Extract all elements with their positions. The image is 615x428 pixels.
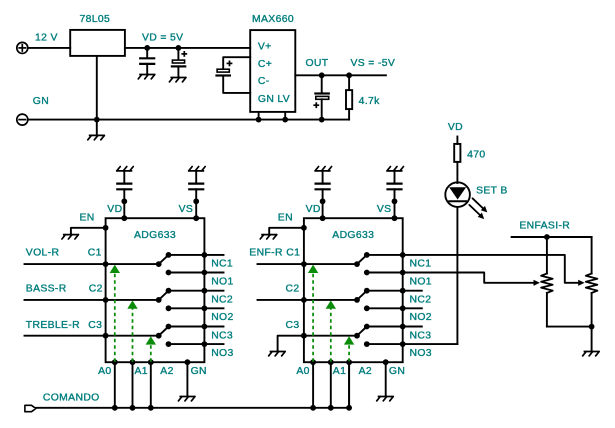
decoupling capacitor at VD (IC4) — [316, 171, 330, 189]
decoupling capacitor at VD (IC3) — [117, 171, 131, 189]
junction A2 at box (IC3) — [148, 359, 154, 365]
svg-text:GN: GN — [191, 366, 207, 377]
junction C3 pin (IC3) — [103, 333, 109, 339]
junction pot bottoms — [589, 324, 595, 330]
svg-text:C3: C3 — [88, 320, 102, 331]
junction NO1 at box edge (IC4) — [400, 270, 406, 276]
svg-text:NO1: NO1 — [410, 276, 432, 287]
wire NO3 contact to box edge (IC3) — [169, 343, 205, 345]
LED D1 circle — [445, 182, 470, 207]
junction A2 at bus (IC3) — [148, 405, 154, 411]
wire VOL-R net to C1 (IC3) — [25, 263, 106, 265]
svg-text:4.7k: 4.7k — [359, 96, 380, 107]
switch S2 NO contact (IC3) — [166, 305, 172, 311]
junction VD pin top (IC4) — [320, 198, 326, 204]
wire VS pin of IC4 — [394, 189, 396, 218]
wire NC2 contact to box edge (IC4) — [367, 290, 403, 292]
switch S3 common wire inside IC4 — [304, 335, 357, 337]
svg-text:C+: C+ — [258, 59, 272, 70]
junction A1 at box (IC3) — [130, 359, 136, 365]
terminal X1 + (12V input) — [17, 42, 28, 53]
switch S1 blade to NC (IC4) — [357, 255, 367, 264]
stub wire right of IC3 y=344.1 — [204, 343, 223, 345]
svg-text:EN: EN — [80, 212, 95, 223]
svg-text:VD: VD — [448, 122, 463, 133]
ground above VD cap (IC3) — [116, 167, 133, 171]
junction A1 at box (IC4) — [328, 359, 334, 365]
svg-text:78L05: 78L05 — [80, 14, 111, 25]
junction NC3 at box edge (IC4) — [400, 324, 406, 330]
wire EN pin of IC4 to ground — [269, 228, 304, 235]
junction NO3 at box edge (IC3) — [202, 341, 208, 347]
switch S1 NO contact (IC3) — [166, 270, 172, 276]
polarity + of C4 — [313, 102, 319, 108]
stub wire NO2 (IC4) — [403, 307, 422, 309]
switch S3 common wire inside IC3 — [106, 335, 159, 337]
svg-text:NC2: NC2 — [410, 295, 432, 306]
svg-text:NC2: NC2 — [211, 295, 233, 306]
junction A2 at bus (IC4) — [346, 405, 352, 411]
switch S3 NC contact (IC3) — [166, 324, 172, 330]
terminal X2 - (GN) — [17, 114, 28, 125]
svg-text:C1: C1 — [88, 247, 102, 258]
svg-text:ADG633: ADG633 — [134, 230, 176, 241]
control arrow (green dashed) IC4 x=349 — [344, 336, 354, 362]
junction OUT / R2 — [346, 72, 352, 78]
svg-text:VD: VD — [306, 204, 321, 215]
junction VD pin top (IC3) — [121, 198, 127, 204]
junction VD pin at box (IC4) — [320, 215, 326, 221]
wire NO1 (IC4) to left pot wiper — [403, 273, 533, 283]
switch S1 pivot (IC3) — [156, 261, 162, 267]
junction VS pin at box (IC3) — [193, 215, 199, 221]
junction VD pin at box (IC3) — [121, 215, 127, 221]
wire BASS-R net to C2 (IC3) — [25, 299, 106, 301]
junction VS pin at box (IC4) — [392, 215, 398, 221]
svg-text:C2: C2 — [89, 284, 103, 295]
stub wire right of IC3 y=326.5 — [204, 326, 223, 328]
wire A2 pin of IC4 to COMANDO bus — [348, 362, 350, 408]
junction C2 pin (IC3) — [103, 297, 109, 303]
ground at EN (IC3) — [62, 235, 79, 239]
svg-text:NO2: NO2 — [410, 312, 432, 323]
ground below GN bus — [88, 135, 105, 139]
switch S1 pivot (IC4) — [354, 261, 360, 267]
junction A0 at bus (IC4) — [310, 405, 316, 411]
switch S2 NC contact (IC3) — [166, 288, 172, 294]
svg-text:NO3: NO3 — [410, 348, 432, 359]
svg-text:A0: A0 — [98, 366, 111, 377]
junction A0 at box (IC3) — [112, 359, 118, 365]
stub wire NC3 (IC4) — [403, 326, 422, 328]
svg-text:A2: A2 — [359, 366, 372, 377]
wire A0 pin of IC4 to COMANDO bus — [312, 362, 314, 408]
wire GN bus — [28, 119, 349, 121]
junction NO2 at box edge (IC3) — [202, 305, 208, 311]
svg-text:GN: GN — [33, 96, 49, 107]
wire ENF-R net to C1 (IC4) — [258, 263, 304, 265]
junction C1 pin (IC4) — [301, 261, 307, 267]
svg-text:SET B: SET B — [476, 185, 508, 196]
connector tag COMANDO — [25, 405, 36, 411]
stub wire right of IC3 y=272.5 — [204, 272, 223, 274]
wire NO3 (IC4) to LED cathode line — [403, 343, 458, 345]
wire NO1 contact to box edge (IC3) — [169, 272, 205, 274]
switch S3 NO contact (IC4) — [364, 341, 370, 347]
junction A0 at box (IC4) — [310, 359, 316, 365]
svg-text:TREBLE-R: TREBLE-R — [26, 320, 80, 331]
junction A0 at bus (IC3) — [112, 405, 118, 411]
ground below P2 — [583, 352, 600, 356]
junction GN pin (IC3) — [185, 359, 191, 365]
svg-text:A1: A1 — [135, 366, 148, 377]
junction NO3 at box edge (IC4) — [400, 341, 406, 347]
wire MAX660 LV pin — [284, 112, 286, 120]
svg-text:NO1: NO1 — [211, 276, 233, 287]
svg-text:GN LV: GN LV — [258, 94, 290, 105]
wire ENFASI-R net — [512, 236, 592, 238]
ground at GN pin (IC4) — [377, 397, 394, 401]
IC IC3 ADG633 box — [106, 218, 205, 362]
capacitor C4 (output, electrolytic, + down) — [315, 75, 328, 119]
junction NO1 at box edge (IC3) — [202, 270, 208, 276]
wire pot bottoms — [547, 326, 592, 328]
wire GN pin of IC4 — [385, 362, 387, 396]
svg-text:VS: VS — [377, 204, 392, 215]
svg-text:470: 470 — [467, 149, 485, 160]
junction NC2 at box edge (IC3) — [202, 288, 208, 294]
svg-text:OUT: OUT — [306, 58, 329, 69]
junction VD rail / C1 — [144, 45, 150, 51]
wire A1 pin of IC3 to COMANDO bus — [132, 362, 134, 408]
ground above VS cap (IC3) — [188, 167, 205, 171]
svg-text:12 V: 12 V — [35, 32, 58, 43]
svg-text:ENF-R: ENF-R — [249, 247, 283, 258]
wire NC3 contact to box edge (IC3) — [169, 326, 205, 328]
wire GN pin of IC3 — [186, 362, 188, 396]
junction GN bus / C4 — [319, 117, 325, 123]
switch S2 blade to NC (IC3) — [159, 291, 169, 300]
switch S3 pivot (IC4) — [354, 333, 360, 339]
junction C2 pin (IC4) — [301, 297, 307, 303]
wire NC1 contact to box edge (IC3) — [169, 254, 205, 256]
switch S1 NO contact (IC4) — [364, 270, 370, 276]
switch S3 NC contact (IC4) — [364, 324, 370, 330]
svg-text:A1: A1 — [333, 366, 346, 377]
wire TREBLE-R net to C3 (IC3) — [25, 335, 106, 337]
switch S1 common wire inside IC3 — [106, 263, 159, 265]
junction NO2 at box edge (IC4) — [400, 305, 406, 311]
ground above VD cap (IC4) — [315, 167, 332, 171]
wire A2 pin of IC3 to COMANDO bus — [150, 362, 152, 408]
stub wire NC2 (IC4) — [403, 290, 422, 292]
control arrow (green dashed) IC4 x=313 — [308, 265, 318, 362]
wire EN pin of IC3 to ground — [71, 228, 106, 235]
IC2 MAX660 box — [250, 30, 295, 112]
polarity + of C3 — [227, 61, 233, 67]
switch S1 blade to NC (IC3) — [159, 255, 169, 264]
junction VD rail / C2 — [176, 45, 182, 51]
junction EN pin (IC4) — [301, 225, 307, 231]
wire NC3 contact to box edge (IC4) — [367, 326, 403, 328]
LED light arrow 2 — [469, 205, 484, 219]
wire VD to R1 — [456, 137, 458, 144]
junction C3 pin (IC4) — [301, 333, 307, 339]
control arrow (green dashed) IC3 x=115 — [110, 265, 120, 362]
wire NC1 (IC4) to right pot wiper — [403, 255, 578, 283]
junction NC1 at box edge (IC3) — [202, 252, 208, 258]
svg-text:A2: A2 — [160, 366, 173, 377]
switch S1 common wire inside IC4 — [304, 263, 357, 265]
wire 78L05 ground pin — [96, 56, 98, 135]
wire LED cathode down to NO3 (IC4) — [456, 207, 458, 344]
svg-text:VS = -5V: VS = -5V — [351, 58, 396, 69]
svg-text:MAX660: MAX660 — [252, 14, 294, 25]
control arrow (green dashed) IC3 x=132 — [127, 300, 137, 361]
wire NC1 contact to box edge (IC4) — [367, 254, 403, 256]
svg-text:VD = 5V: VD = 5V — [142, 32, 183, 43]
wire R1 to LED anode — [456, 162, 458, 183]
svg-text:VOL-R: VOL-R — [26, 247, 60, 258]
wire MAX660 GN pin — [258, 112, 260, 120]
potentiometer P1 (left) — [541, 237, 553, 327]
svg-text:VD: VD — [107, 204, 122, 215]
junction NC1 at box edge (IC4) — [400, 252, 406, 258]
junction A2 at box (IC4) — [346, 359, 352, 365]
switch S2 NO contact (IC4) — [364, 305, 370, 311]
junction ENFASI-R / left pot — [544, 234, 550, 240]
junction A1 at bus (IC3) — [130, 405, 136, 411]
LED light arrow 1 — [473, 198, 488, 212]
junction VS pin top (IC4) — [392, 198, 398, 204]
svg-text:C3: C3 — [286, 320, 300, 331]
ground at EN (IC4) — [260, 235, 277, 239]
ground below C1 — [138, 75, 155, 79]
svg-text:ADG633: ADG633 — [332, 230, 374, 241]
wire NO2 contact to box edge (IC4) — [367, 307, 403, 309]
stub wire right of IC3 y=308.3 — [204, 307, 223, 309]
wire VS pin of IC3 — [195, 189, 197, 218]
wire NO2 contact to box edge (IC3) — [169, 307, 205, 309]
switch S3 blade to NC (IC4) — [357, 327, 367, 336]
wiper arrowhead left pot — [534, 280, 540, 286]
svg-text:GN: GN — [389, 366, 405, 377]
wire COMANDO bus — [36, 362, 349, 408]
resistor R1 470 — [454, 144, 460, 162]
svg-text:VS: VS — [179, 204, 194, 215]
svg-text:NC1: NC1 — [410, 259, 432, 270]
switch S2 common wire inside IC3 — [106, 299, 159, 301]
stub wire right of IC3 y=254.9 — [204, 254, 223, 256]
junction NC3 at box edge (IC3) — [202, 324, 208, 330]
junction C1 pin (IC3) — [103, 261, 109, 267]
svg-text:ENFASI-R: ENFASI-R — [519, 221, 570, 232]
svg-text:COMANDO: COMANDO — [43, 393, 100, 404]
wire NO3 contact to box edge (IC4) — [367, 343, 403, 345]
junction VS pin top (IC3) — [193, 198, 199, 204]
wire flying capacitor to C- pin — [223, 76, 250, 93]
svg-text:C1: C1 — [286, 247, 300, 258]
svg-text:V+: V+ — [258, 41, 272, 52]
ground above VS cap (IC4) — [387, 167, 404, 171]
decoupling capacitor at VS (IC3) — [189, 171, 203, 189]
ground at GN pin (IC3) — [178, 397, 195, 401]
junction GN pin (IC4) — [383, 359, 389, 365]
ground at C3 (IC4) — [269, 352, 286, 356]
control arrow (green dashed) IC4 x=331 — [326, 300, 336, 361]
resistor R2 4.7k — [346, 75, 352, 119]
polarity + of C2 — [181, 51, 187, 57]
junction GN bus / 78L05 — [94, 117, 100, 123]
wire NO1 contact to box edge (IC4) — [367, 272, 403, 274]
svg-text:NC3: NC3 — [211, 330, 233, 341]
switch S2 pivot (IC3) — [156, 297, 162, 303]
junction GN bus / MAX660 LV — [282, 117, 288, 123]
switch S2 blade to NC (IC4) — [357, 291, 367, 300]
LED D1 triangle — [449, 187, 466, 199]
svg-text:C2: C2 — [286, 284, 300, 295]
junction A1 at bus (IC4) — [328, 405, 334, 411]
svg-text:NO3: NO3 — [211, 348, 233, 359]
switch S3 NO contact (IC3) — [166, 341, 172, 347]
wire C2 stub (IC4) — [258, 299, 304, 301]
control arrow (green dashed) IC3 x=151 — [146, 336, 156, 362]
potentiometer P2 (right) — [586, 237, 598, 351]
svg-text:EN: EN — [278, 212, 293, 223]
regulator IC1 78L05 — [70, 30, 125, 56]
wire NC2 contact to box edge (IC3) — [169, 290, 205, 292]
wire C+ pin to flying capacitor — [223, 57, 250, 69]
switch S2 pivot (IC4) — [354, 297, 360, 303]
junction NC2 at box edge (IC4) — [400, 288, 406, 294]
svg-text:NO2: NO2 — [211, 312, 233, 323]
wire C3 of IC4 to ground — [278, 336, 304, 352]
IC IC4 ADG633 box — [304, 218, 403, 362]
junction EN pin (IC3) — [103, 225, 109, 231]
decoupling capacitor at VS (IC4) — [388, 171, 402, 189]
capacitor C1 (ceramic to ground) — [140, 48, 154, 74]
wire A1 pin of IC4 to COMANDO bus — [330, 362, 332, 408]
switch S3 blade to NC (IC3) — [159, 327, 169, 336]
wiper arrowhead right pot — [578, 280, 584, 286]
wire + terminal to 78L05 — [28, 47, 70, 49]
junction GN bus / MAX660 GN — [256, 117, 262, 123]
junction OUT / C4 — [319, 72, 325, 78]
switch S1 NC contact (IC4) — [364, 252, 370, 258]
capacitor C3 (flying, electrolytic) — [217, 69, 230, 75]
wire VD pin of IC3 — [123, 189, 125, 218]
svg-text:A0: A0 — [296, 366, 309, 377]
ground below C2 — [169, 78, 186, 82]
wire OUT to VS = -5V net — [295, 74, 386, 76]
svg-text:BASS-R: BASS-R — [26, 284, 67, 295]
switch S3 pivot (IC3) — [156, 333, 162, 339]
capacitor C2 (electrolytic to ground) — [172, 48, 185, 77]
svg-text:C-: C- — [258, 76, 270, 87]
wire VD rail 78L05 to MAX660 V+ — [125, 47, 250, 49]
svg-text:NC1: NC1 — [211, 259, 233, 270]
svg-text:NC3: NC3 — [410, 330, 432, 341]
switch S2 common wire inside IC4 — [304, 299, 357, 301]
switch S2 NC contact (IC4) — [364, 288, 370, 294]
switch S1 NC contact (IC3) — [166, 252, 172, 258]
wire A0 pin of IC3 to COMANDO bus — [114, 362, 116, 408]
LED D1 cathode bar — [449, 200, 466, 202]
wire VD pin of IC4 — [322, 189, 324, 218]
stub wire right of IC3 y=290.7 — [204, 290, 223, 292]
